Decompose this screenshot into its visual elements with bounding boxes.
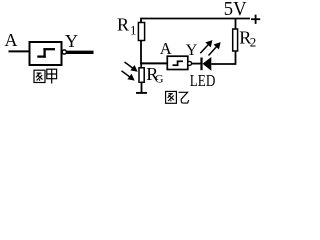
svg-text:A: A bbox=[5, 30, 18, 50]
output bubble U1 bbox=[62, 50, 66, 54]
output bubble U2 bbox=[188, 61, 192, 65]
hysteresis symbol U2 bbox=[173, 61, 184, 66]
resistor R2 bbox=[233, 29, 238, 51]
wire junction to RG bbox=[140, 63, 142, 69]
photoresistor RG bbox=[139, 68, 144, 83]
wire input to schmitt box (figure jia) bbox=[9, 50, 31, 52]
plus sign (supply polarity) bbox=[251, 15, 260, 24]
5V supply rail (top) bbox=[141, 19, 250, 65]
schmitt trigger U1 box (figure jia) bbox=[30, 42, 62, 65]
svg-text:1: 1 bbox=[130, 23, 137, 38]
svg-text:R: R bbox=[117, 15, 129, 35]
wire junction to schmitt input (figure yi) bbox=[140, 62, 168, 64]
resistor R1 bbox=[138, 23, 144, 41]
wire RG to ground bbox=[141, 83, 143, 93]
svg-text:A: A bbox=[160, 39, 172, 58]
svg-text:G: G bbox=[155, 72, 164, 86]
ground terminal bar bbox=[136, 92, 147, 94]
schmitt trigger U2 box (figure yi) bbox=[167, 56, 188, 69]
svg-text:2: 2 bbox=[250, 35, 256, 50]
light arrows into RG bbox=[122, 62, 137, 80]
svg-text:5V: 5V bbox=[224, 0, 247, 20]
svg-text:Y: Y bbox=[186, 42, 198, 59]
output wire Y bold (figure jia) bbox=[67, 51, 94, 54]
svg-text:LED: LED bbox=[190, 71, 216, 90]
hysteresis symbol U1 bbox=[37, 48, 55, 57]
wire bubble to LED bbox=[192, 63, 201, 65]
wire R2 top to rail bbox=[235, 18, 237, 29]
LED emission arrows bbox=[200, 41, 219, 55]
wire LED to R2 (right branch) bbox=[211, 51, 235, 64]
caption tu-jia bbox=[34, 69, 57, 83]
caption tu-yi bbox=[166, 91, 189, 103]
LED D1 (cathode bar + triangle pointing left) bbox=[202, 57, 212, 71]
svg-text:Y: Y bbox=[65, 31, 78, 51]
